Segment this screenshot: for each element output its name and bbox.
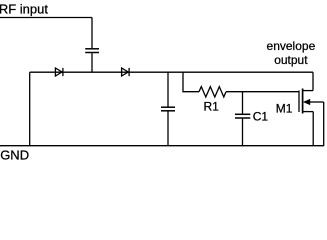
svg-text:M1: M1 [276,101,293,115]
wire body to ground rail [323,102,325,146]
channel bar [302,89,304,114]
diode D1 [55,68,63,76]
label GND [0,148,29,163]
drain stub [303,90,313,92]
ground rail [0,145,324,147]
svg-text:GND: GND [0,148,29,163]
wire drain to bus [312,72,314,90]
svg-text:C1: C1 [253,110,269,124]
body arrow [303,99,310,105]
label R1 [204,99,220,113]
svg-text:RF input: RF input [0,1,48,16]
capacitor C1 [235,92,250,146]
capacitor reservoir (unlabeled) [161,72,175,146]
wire source to ground rail [312,112,314,146]
node RF input label [0,1,48,16]
gate bar [298,91,300,113]
wire coupling capacitor to bus [91,53,93,72]
node envelope output label [267,39,316,67]
capacitor coupling (unlabeled) [85,49,99,53]
source stub [303,111,314,113]
transistor M1 [299,89,324,114]
wire main bus [30,71,313,73]
diode D2 [122,68,130,76]
wire bus to R1 branch [183,72,199,92]
svg-text:R1: R1 [204,99,220,113]
wire left vertical to ground [29,72,31,146]
resistor R1 [199,87,226,97]
wire R1 to gate node [226,91,299,93]
label C1 [253,110,269,124]
svg-text:envelope: envelope [267,39,316,53]
label M1 [276,101,293,115]
svg-text:output: output [274,53,308,67]
wire RF input top [0,17,92,19]
wire into coupling capacitor [91,18,93,49]
body wire [310,101,324,103]
